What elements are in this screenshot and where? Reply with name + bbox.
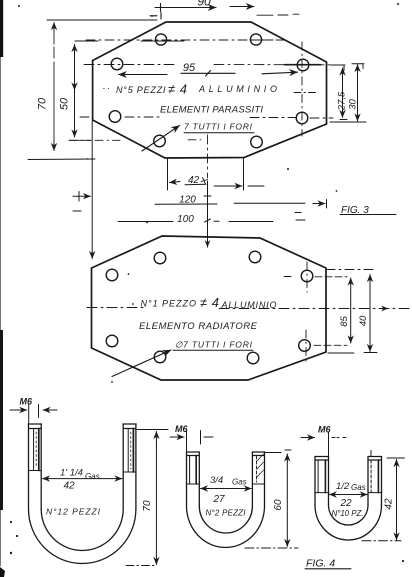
svg-text:∅7 TUTTI I FORI: ∅7 TUTTI I FORI <box>175 340 253 350</box>
hole B8 <box>247 352 259 364</box>
svg-text:50: 50 <box>59 97 71 110</box>
extension line top right U2 <box>326 269 377 271</box>
U-bolt Q1 outer arc <box>29 509 136 563</box>
svg-text:..: .. <box>103 81 112 91</box>
svg-text:90: 90 <box>197 0 211 9</box>
svg-text:3/4: 3/4 <box>210 475 223 486</box>
hole A3 <box>111 58 123 70</box>
plate U2 octagon outline (elemento radiatore) <box>92 236 327 380</box>
svg-text:42: 42 <box>63 481 75 492</box>
svg-text:42: 42 <box>188 175 200 186</box>
svg-text:Gas: Gas <box>85 472 100 481</box>
hole B6 <box>299 340 311 352</box>
U-bolt Q3 body <box>315 451 382 541</box>
svg-text:ALLUMINIO: ALLUMINIO <box>198 84 277 94</box>
hole B5 <box>106 335 118 347</box>
extension hole row top right U2 <box>284 276 347 278</box>
centerline row1 plate U1 <box>86 39 285 41</box>
U-bolt Q1 inner arc <box>41 509 123 550</box>
svg-text:30: 30 <box>348 99 359 110</box>
U-bolt Q2 body <box>187 452 265 548</box>
svg-text:Gas: Gas <box>351 483 366 492</box>
dimension 27.5 right <box>331 65 348 120</box>
svg-text:N°5 PEZZI: N°5 PEZZI <box>116 85 166 95</box>
svg-text:100: 100 <box>177 214 194 225</box>
svg-text:42: 42 <box>384 498 395 510</box>
svg-text:40: 40 <box>358 315 369 326</box>
U-bolt Q3 outer arc <box>315 505 382 540</box>
hole A6 <box>296 112 308 124</box>
centerline row3 plate U1 <box>80 117 333 118</box>
dimension M6 bolt Q2 <box>170 431 213 453</box>
dimension 60 right of Q2 <box>245 450 298 548</box>
svg-text:1' 1/4: 1' 1/4 <box>60 468 83 479</box>
vertical axis solid segment with crossing ticks <box>207 181 209 247</box>
svg-text:M6: M6 <box>318 425 331 435</box>
svg-text:22: 22 <box>339 498 352 509</box>
hole A7 <box>154 135 166 147</box>
svg-text:85: 85 <box>339 316 350 327</box>
centerline row4 plate U1 <box>69 139 201 142</box>
plate U1 octagon outline (elementi parassiti) <box>93 22 327 158</box>
dimension 42 right of Q3 <box>362 458 405 541</box>
svg-text:7 TUTTI I FORI: 7 TUTTI I FORI <box>184 122 253 132</box>
U-bolt Q3 inner arc <box>329 505 369 525</box>
dimension 40 right U2 <box>369 275 371 352</box>
dimension 42 below plate U1 <box>168 158 265 190</box>
dimension M6 bolt Q1 <box>10 405 57 424</box>
svg-text:120: 120 <box>179 195 196 206</box>
hole A1 <box>155 34 166 45</box>
scan corner artifact bottom-left <box>0 567 5 577</box>
scan edge artifact left bar <box>0 0 3 57</box>
svg-text:95: 95 <box>183 62 196 74</box>
hole A4 <box>297 59 309 71</box>
hole A2 <box>250 34 261 45</box>
dimension 70 right of Q1 <box>126 430 168 566</box>
centerline row2 plate U1 <box>84 64 333 66</box>
centerline vertical right holes U2 <box>306 262 307 361</box>
U-bolt Q2 inner arc <box>199 506 252 533</box>
leader arrow holes note U2 <box>112 350 171 377</box>
dimension 27 line Q2 <box>201 488 252 490</box>
svg-text:70: 70 <box>142 500 153 512</box>
svg-text:ELEMENTO RADIATORE: ELEMENTO RADIATORE <box>139 321 258 332</box>
svg-text:N°1 PEZZO: N°1 PEZZO <box>141 299 197 309</box>
svg-text:N°12 PEZZI: N°12 PEZZI <box>46 507 101 517</box>
svg-text:Gas: Gas <box>232 478 247 487</box>
leader arrow holes note U1 <box>142 126 180 152</box>
hole A8 <box>251 136 263 148</box>
svg-text:ELEMENTI PARASSITI: ELEMENTI PARASSITI <box>160 105 263 116</box>
svg-text:M6: M6 <box>20 397 33 407</box>
hole B1 <box>154 252 166 264</box>
hole B3 <box>106 269 118 281</box>
centerline mid horizontal right U1 <box>294 92 318 94</box>
svg-text:N°10 PZ.: N°10 PZ. <box>332 509 364 518</box>
extension hole row bottom right U2 <box>314 344 347 346</box>
hole A5 <box>109 111 121 123</box>
svg-text:FIG. 4: FIG. 4 <box>306 558 335 570</box>
dimension 42 line Q1 <box>43 478 123 480</box>
svg-text:1/2: 1/2 <box>336 481 350 492</box>
svg-text:60: 60 <box>273 499 284 511</box>
dimension 85 right U2 <box>350 278 352 343</box>
svg-text:≠4: ≠4 <box>200 295 219 310</box>
hole B7 <box>154 351 166 363</box>
hole B2 <box>249 251 261 263</box>
svg-text:≠4: ≠4 <box>168 82 187 97</box>
svg-text:M6: M6 <box>175 424 188 434</box>
dimension 120 <box>73 121 327 259</box>
centerline vertical right holes U1 <box>301 42 303 136</box>
dimension 90 top <box>150 4 299 20</box>
centerline horizontal plate U2 <box>87 308 412 309</box>
dimension 30 right <box>330 64 366 122</box>
centerline arrowhead on axis <box>380 308 388 310</box>
U-bolt Q2 outer arc <box>187 506 265 548</box>
axis arrowhead <box>207 240 209 247</box>
dimension 95 inside plate U1 <box>119 65 321 76</box>
tick after 42 <box>201 178 208 185</box>
svg-text:27: 27 <box>212 494 225 505</box>
dimension M6 bolt Q3 <box>301 432 348 457</box>
extension line bottom right U2 <box>328 352 377 355</box>
dimension 22 line Q3 <box>329 494 367 496</box>
svg-text:27,5: 27,5 <box>336 91 347 111</box>
dimension 100 <box>118 213 305 222</box>
svg-text:ALLUMINIO: ALLUMINIO <box>221 300 277 310</box>
svg-text:N°2 PEZZI: N°2 PEZZI <box>206 509 247 518</box>
dimension 50 left <box>69 41 98 140</box>
vertical axis between figures <box>207 135 209 178</box>
dimension 70 left <box>28 20 157 160</box>
svg-text:70: 70 <box>37 97 49 110</box>
U-bolt Q1 body <box>28 424 136 563</box>
hole B4 <box>301 270 313 282</box>
